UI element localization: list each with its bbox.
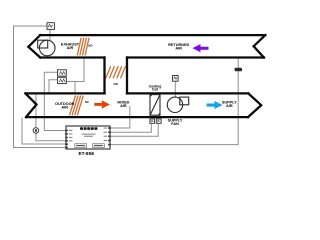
cooling coil	[150, 95, 160, 116]
EA relay box	[47, 23, 54, 30]
svg-text:NC: NC	[85, 100, 89, 104]
wire actuator box A to controller	[44, 72, 66, 130]
duct: return torn end	[254, 35, 266, 57]
wire duct to OA sensor	[35, 93, 37, 128]
svg-text:FAN: FAN	[171, 122, 179, 126]
return-air sensor	[235, 68, 243, 72]
controller terminals left	[65, 130, 68, 149]
supply fan	[167, 97, 188, 112]
svg-text:Coil: Coil	[152, 88, 158, 92]
red mixed-air arrow	[94, 100, 110, 108]
RA damper hatch	[106, 66, 126, 78]
controller terminal labels	[69, 128, 107, 142]
wire actuator boxes to EA damper	[66, 58, 84, 81]
controller logo	[80, 127, 97, 130]
OA damper hatch	[70, 96, 84, 116]
wire actuator box B stub	[49, 80, 58, 93]
damper actuator box A	[58, 70, 67, 76]
wire OA sensor to controller	[36, 133, 66, 141]
purple return arrow	[192, 44, 208, 52]
supply fan relay box 2	[156, 119, 161, 123]
duct: exhaust bottom edge	[40, 56, 104, 58]
wire OA damper to controller	[22, 118, 66, 145]
wire plenum sensor box to supply fan	[174, 81, 176, 97]
supply fan relay box 1	[150, 119, 155, 123]
duct: supply tip	[248, 93, 261, 117]
svg-text:AIR: AIR	[120, 104, 127, 108]
wire EA relay box down to exhaust fan	[49, 29, 51, 41]
duct: top edge	[40, 34, 265, 36]
wire controller to return-air sensor	[110, 58, 238, 144]
svg-text:NO: NO	[114, 82, 119, 86]
exhaust fan	[38, 40, 55, 56]
duct: supply top edge	[127, 92, 248, 94]
svg-text:AIR: AIR	[61, 105, 68, 109]
wire mixed-air sensor to controller	[110, 106, 130, 128]
controller center text lines	[82, 134, 96, 135]
EA damper hatch	[77, 38, 89, 56]
duct: return bottom edge	[127, 56, 264, 58]
duct: outdoor top edge	[26, 92, 105, 94]
controller box ET-858	[66, 126, 110, 149]
svg-text:AIR: AIR	[226, 104, 233, 108]
svg-text:AIR: AIR	[175, 47, 182, 51]
damper actuator box B	[58, 77, 67, 83]
wire controller to fan box 1	[110, 123, 151, 132]
wire from EA relay box left and down to controller	[14, 26, 67, 148]
svg-text:ET-858: ET-858	[78, 151, 94, 157]
wire actuator to OA damper	[74, 82, 76, 93]
wire controller to fan box 2	[110, 123, 158, 136]
duct: exhaust tip diagonals	[25, 35, 265, 117]
duct: bottom edge	[26, 116, 248, 118]
cyan supply arrow	[207, 101, 223, 109]
duct: RA passage left wall	[103, 58, 105, 94]
OA temperature sensor	[33, 128, 39, 134]
controller terminals right	[108, 127, 111, 145]
svg-text:AIR: AIR	[67, 46, 74, 50]
duct: outdoor notch	[25, 93, 36, 117]
controller bottom setpoint blocks	[75, 144, 87, 148]
plenum sensor box	[173, 76, 179, 82]
duct: RA passage right wall	[126, 58, 128, 94]
